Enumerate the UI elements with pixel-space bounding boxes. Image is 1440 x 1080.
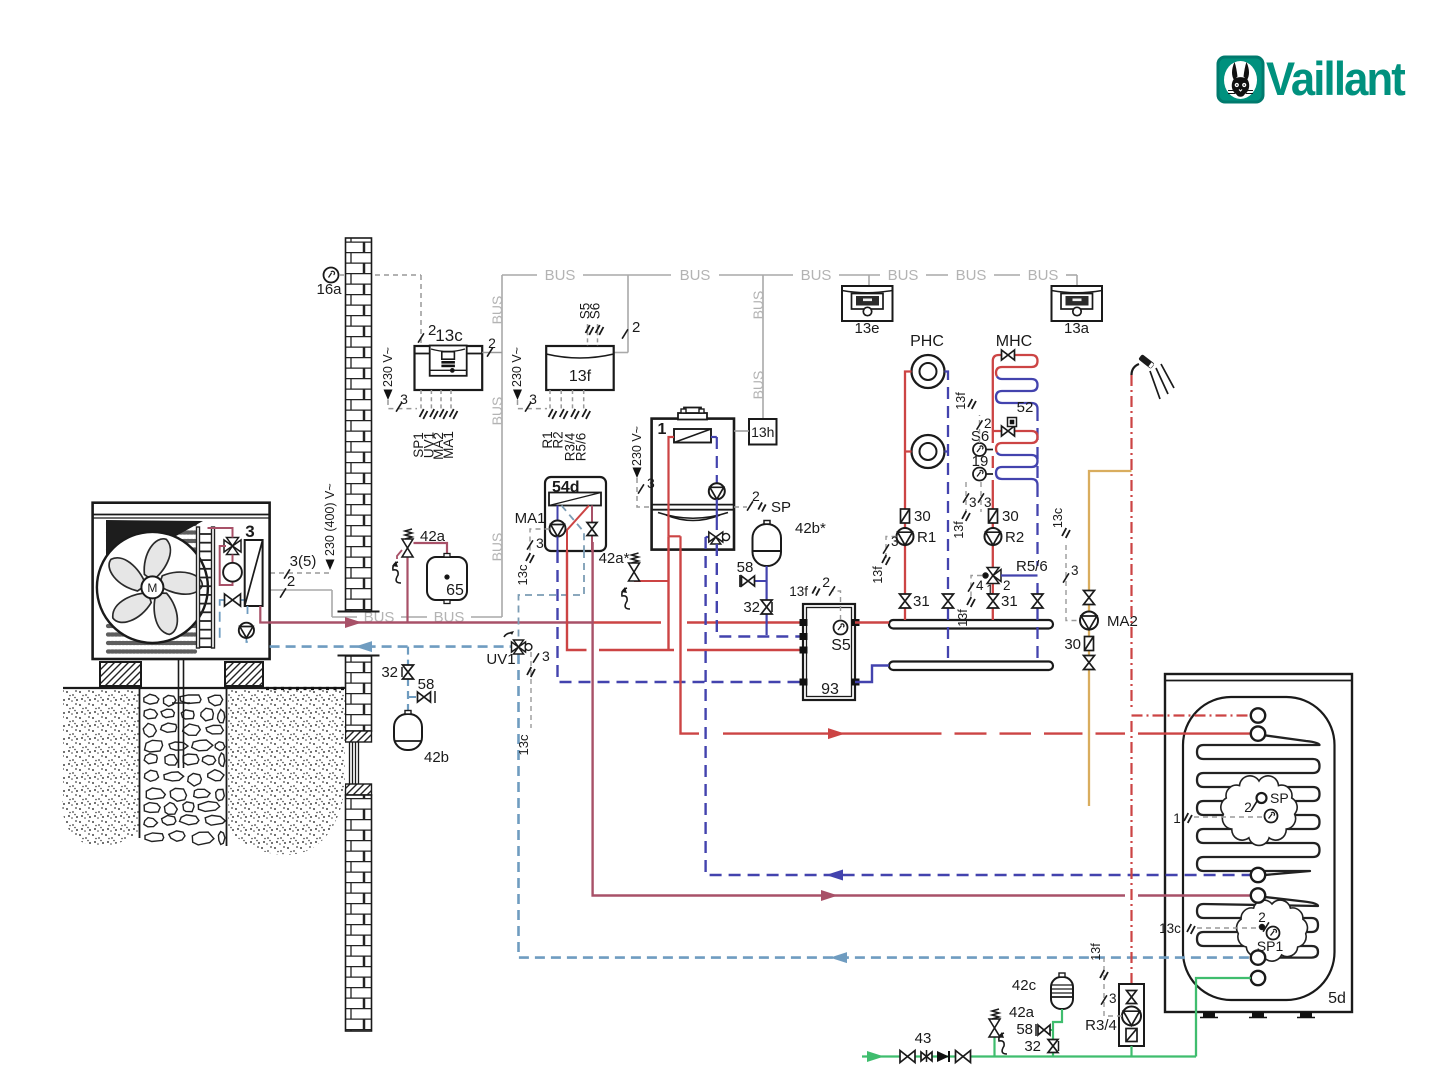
svg-text:2: 2 (822, 574, 830, 590)
valve 52 (993, 431, 1038, 453)
svg-text:31: 31 (913, 593, 930, 610)
svg-text:BUS: BUS (801, 267, 832, 284)
valve PHC return (943, 594, 954, 608)
svg-text:230 V~: 230 V~ (630, 426, 644, 466)
safety valve 42a* (634, 580, 669, 582)
MHC upper heating loop (993, 355, 1038, 377)
room thermostat 13e (842, 286, 893, 321)
svg-text:3: 3 (984, 495, 992, 510)
upper coil (1197, 734, 1320, 876)
svg-text:2: 2 (488, 335, 496, 351)
svg-text:3: 3 (1109, 991, 1117, 1006)
expansion valve (220, 600, 245, 638)
13h module (749, 419, 777, 445)
svg-text:42c: 42c (1012, 977, 1037, 994)
cylinder ports (1251, 708, 1265, 722)
svg-text:13e: 13e (854, 320, 879, 337)
wire 3 UV1 (530, 652, 532, 728)
brick wall (346, 238, 372, 611)
valve 58 hp (408, 696, 433, 698)
vessel 65 (414, 543, 448, 557)
mixing valve R5/6 (987, 568, 1001, 584)
svg-text:3: 3 (529, 391, 537, 407)
svg-text:13f: 13f (789, 584, 808, 599)
svg-text:5d: 5d (1328, 990, 1346, 1007)
boiler 1 (652, 419, 734, 550)
flow manifold bar (889, 620, 1053, 629)
svg-text:BUS: BUS (1028, 267, 1059, 284)
svg-text:52: 52 (1017, 399, 1034, 416)
hp water out (260, 606, 269, 623)
check valve 30 MA2 (1085, 637, 1094, 651)
svg-text:30: 30 (1002, 508, 1019, 525)
13c outputs SP1 UV1 MA2 MA1 (421, 390, 451, 410)
svg-text:MA2: MA2 (1107, 613, 1138, 630)
boiler diverter valve (716, 499, 718, 530)
valve 58 drain (742, 580, 767, 582)
sensor S5 (834, 621, 848, 635)
svg-text:1: 1 (658, 421, 667, 438)
svg-text:3: 3 (647, 475, 655, 491)
header to manifold pipes (855, 621, 889, 623)
condensate drain pipe (178, 652, 180, 768)
svg-text:230 (400) V~: 230 (400) V~ (323, 483, 337, 556)
wire 2 SP boiler cylinder sensor (734, 506, 747, 508)
cloud SP1 (1237, 900, 1308, 961)
expansion vessel 42c (1051, 977, 1073, 1009)
flow pipe to header (593, 621, 803, 623)
13f inputs S5 S6 (588, 324, 598, 346)
wall sleeve (346, 731, 372, 742)
svg-text:30: 30 (914, 508, 931, 525)
svg-text:42a: 42a (1009, 1004, 1035, 1021)
svg-text:230 V~: 230 V~ (510, 347, 524, 387)
54d pump MA1 (550, 521, 566, 537)
control unit 13c (415, 346, 483, 390)
pump R2 (985, 528, 1002, 545)
evaporator coil (108, 524, 195, 652)
expansion vessel 42b* (753, 524, 782, 566)
svg-text:42b*: 42b* (795, 520, 826, 537)
heat pump outdoor unit 3 (93, 503, 270, 659)
shower head (1132, 364, 1140, 375)
svg-text:230 V~: 230 V~ (381, 347, 395, 387)
MHC lower heating loop (996, 453, 1038, 486)
svg-text:13c: 13c (1051, 508, 1065, 528)
valve 31 MHC (988, 594, 999, 608)
54d heat exchanger (549, 493, 601, 506)
svg-text:13f: 13f (569, 368, 592, 385)
svg-text:13c: 13c (516, 734, 531, 755)
uv1 to cylinder pipe (519, 654, 1251, 958)
4-way valve (224, 538, 241, 555)
boiler return to header (717, 544, 803, 637)
plate heat exchanger (245, 540, 263, 606)
svg-text:BUS: BUS (545, 267, 576, 284)
svg-text:13h: 13h (751, 424, 774, 440)
svg-text:BUS: BUS (956, 267, 987, 284)
hp return pipe light blue (270, 645, 511, 648)
expansion vessel 42b (394, 714, 422, 750)
svg-text:3: 3 (969, 495, 977, 510)
svg-text:2: 2 (632, 319, 640, 336)
hp internal pump (246, 606, 247, 642)
valve 32 dhw (1048, 1040, 1058, 1053)
svg-text:13f: 13f (871, 566, 885, 584)
svg-text:2: 2 (1244, 800, 1252, 815)
sensor SP1 (1259, 924, 1264, 929)
svg-text:MHC: MHC (996, 333, 1032, 350)
svg-text:BUS: BUS (750, 291, 766, 320)
svg-text:BUS: BUS (489, 397, 505, 426)
54d valve (587, 523, 597, 536)
svg-text:13f: 13f (956, 609, 970, 627)
wiring centre 13f (546, 346, 614, 390)
pump group 54d (545, 477, 606, 551)
gravel pit (139, 688, 141, 838)
wire 3 R3/4 (1104, 958, 1122, 1016)
cylinder 5d outer (1165, 674, 1352, 1012)
svg-text:UV1: UV1 (486, 651, 515, 668)
svg-text:SP: SP (771, 499, 791, 516)
svg-text:2: 2 (984, 416, 992, 431)
diverter valve UV1 (512, 640, 526, 654)
cylinder feet (1203, 1012, 1215, 1017)
wire 2 S6 to 13f (979, 415, 981, 443)
expansion branch 42b (407, 647, 409, 714)
check valve 30 MHC (989, 509, 998, 523)
svg-text:42a*: 42a* (599, 550, 630, 567)
boiler pump (716, 437, 718, 483)
svg-text:32: 32 (743, 599, 760, 616)
ground line (63, 687, 345, 689)
svg-text:65: 65 (446, 582, 464, 599)
svg-text:2: 2 (1258, 910, 1266, 925)
boiler heat exchanger (674, 429, 711, 443)
hp dhw pipe maroon down (593, 542, 1250, 896)
svg-text:Vaillant: Vaillant (1266, 52, 1406, 105)
dhw pipe to shower (1130, 375, 1132, 991)
refrigerant loop (208, 528, 233, 585)
13f outputs R1 R2 R3/4 R5/6 (550, 390, 584, 410)
cloud SP (1221, 776, 1297, 846)
return manifold bar (889, 662, 1053, 671)
hp flow pipe maroon (270, 621, 593, 623)
svg-text:3: 3 (542, 648, 550, 664)
svg-text:30: 30 (1064, 636, 1081, 653)
heat pump foot right (225, 662, 263, 686)
svg-text:3: 3 (1071, 563, 1079, 578)
svg-text:2: 2 (752, 488, 760, 504)
svg-text:3: 3 (400, 391, 408, 407)
uv1 to 54d pipe (519, 551, 585, 640)
wire 4 R5/6 (971, 576, 982, 601)
valve 31 PHC (900, 594, 911, 608)
valve above MA2 (1084, 591, 1095, 605)
svg-text:MA1: MA1 (441, 431, 456, 459)
isolating valves 43 (900, 1051, 915, 1063)
svg-text:13f: 13f (1089, 943, 1103, 961)
wire 2 13c to bus (482, 352, 502, 354)
radiator 1 (912, 355, 945, 388)
radiator 2 (912, 435, 945, 468)
svg-text:BUS: BUS (489, 533, 505, 562)
check valve 30 PHC (901, 509, 910, 523)
valve below MA2 (1084, 656, 1095, 670)
soil left (62, 689, 139, 846)
svg-text:2: 2 (1003, 578, 1011, 593)
svg-text:R3/4: R3/4 (1085, 1017, 1117, 1034)
Vaillant logo (1218, 52, 1406, 105)
room thermostat 13a (1052, 286, 1103, 321)
wires 3 3 to pumps (966, 482, 981, 512)
power supply 230 (400) V~ (326, 560, 335, 571)
svg-text:1: 1 (1173, 811, 1181, 826)
pipes in wall (349, 742, 351, 784)
cold water main green (862, 978, 1251, 1057)
sensor S6 (973, 443, 986, 456)
svg-text:R5/6: R5/6 (1016, 558, 1048, 575)
low loss header 93 (803, 604, 855, 700)
MHC flow pipe (992, 361, 994, 620)
svg-text:13f: 13f (954, 392, 968, 410)
wire 2 sensor to 13c (339, 274, 421, 276)
svg-text:43: 43 (915, 1030, 932, 1047)
boiler dhw return from cylinder (706, 537, 1250, 875)
svg-text:BUS: BUS (680, 267, 711, 284)
svg-text:BUS: BUS (888, 267, 919, 284)
wire 3 R1 (886, 537, 897, 561)
svg-text:PHC: PHC (910, 333, 944, 350)
pump MA2 (1080, 612, 1098, 630)
BUS rail (270, 275, 1077, 617)
svg-text:13f: 13f (952, 521, 966, 539)
54d internal lines (557, 506, 559, 521)
svg-text:R2: R2 (1005, 529, 1024, 546)
54d return to header (558, 551, 804, 682)
compressor (223, 563, 242, 582)
safety valve 42a (406, 551, 408, 623)
PHC flow pipe (905, 372, 912, 621)
svg-text:R1: R1 (917, 529, 936, 546)
valve 58 dhw (1038, 1029, 1053, 1031)
svg-text:R5/6: R5/6 (574, 433, 589, 462)
header ports (800, 619, 808, 626)
svg-text:2: 2 (287, 573, 295, 590)
svg-text:13c: 13c (1159, 921, 1181, 936)
PHC return pipe (945, 372, 949, 662)
svg-text:13c: 13c (435, 326, 463, 345)
soil right (228, 689, 345, 855)
svg-text:S5: S5 (831, 637, 851, 654)
svg-text:32: 32 (381, 664, 398, 681)
svg-text:13a: 13a (1064, 320, 1090, 337)
svg-text:S6: S6 (588, 303, 603, 320)
valve 32 (761, 600, 772, 614)
circulation pump group R3/4 (1119, 984, 1144, 1046)
wire 2 heat pump to 13f bus (622, 329, 628, 338)
boiler flow to header (668, 536, 804, 650)
svg-text:MA1: MA1 (515, 510, 546, 527)
svg-text:SP: SP (1270, 790, 1289, 806)
boiler panel lines (652, 504, 734, 506)
svg-text:58: 58 (418, 676, 435, 693)
54d flow to header (567, 551, 668, 650)
svg-text:13c: 13c (515, 564, 530, 585)
wire 2 S5 to 13f (833, 591, 841, 620)
svg-text:42b: 42b (424, 749, 449, 766)
svg-text:93: 93 (821, 681, 839, 698)
cylinder inner tank (1183, 697, 1335, 1000)
pump R1 (897, 528, 914, 545)
svg-text:32: 32 (1024, 1038, 1041, 1055)
svg-text:19: 19 (972, 453, 989, 470)
svg-text:M: M (147, 581, 157, 595)
lower coil (1197, 896, 1318, 958)
outdoor sensor 16a (324, 268, 339, 283)
heat pump foot left (100, 662, 141, 686)
svg-text:16a: 16a (316, 281, 342, 298)
svg-text:3: 3 (245, 522, 254, 541)
svg-text:31: 31 (1001, 593, 1018, 610)
boiler internal red (669, 437, 681, 550)
wire 3(5) power heat pump (270, 572, 330, 574)
circulation pipe orange (1089, 471, 1132, 806)
sensor 19 (973, 468, 986, 481)
coil end ladder (197, 527, 200, 648)
svg-text:3(5): 3(5) (290, 553, 317, 570)
svg-text:58: 58 (1016, 1021, 1033, 1038)
svg-text:58: 58 (737, 559, 754, 576)
boiler dhw flow to cylinder (681, 550, 1251, 734)
svg-text:3: 3 (536, 535, 544, 551)
svg-text:BUS: BUS (750, 371, 766, 400)
boiler flue fitting (678, 413, 707, 420)
wire 3 MA2 (1066, 545, 1078, 621)
wire 3 MA1 (530, 529, 550, 553)
valve MHC return (1032, 594, 1043, 608)
MHC return pipe (1036, 409, 1038, 662)
sensor SP (1257, 793, 1267, 803)
svg-text:3: 3 (891, 534, 899, 549)
svg-text:4: 4 (976, 578, 984, 593)
safety group 42a (993, 1034, 995, 1057)
valve 32 hp (403, 665, 414, 679)
svg-text:BUS: BUS (489, 296, 505, 325)
fan (97, 532, 208, 643)
